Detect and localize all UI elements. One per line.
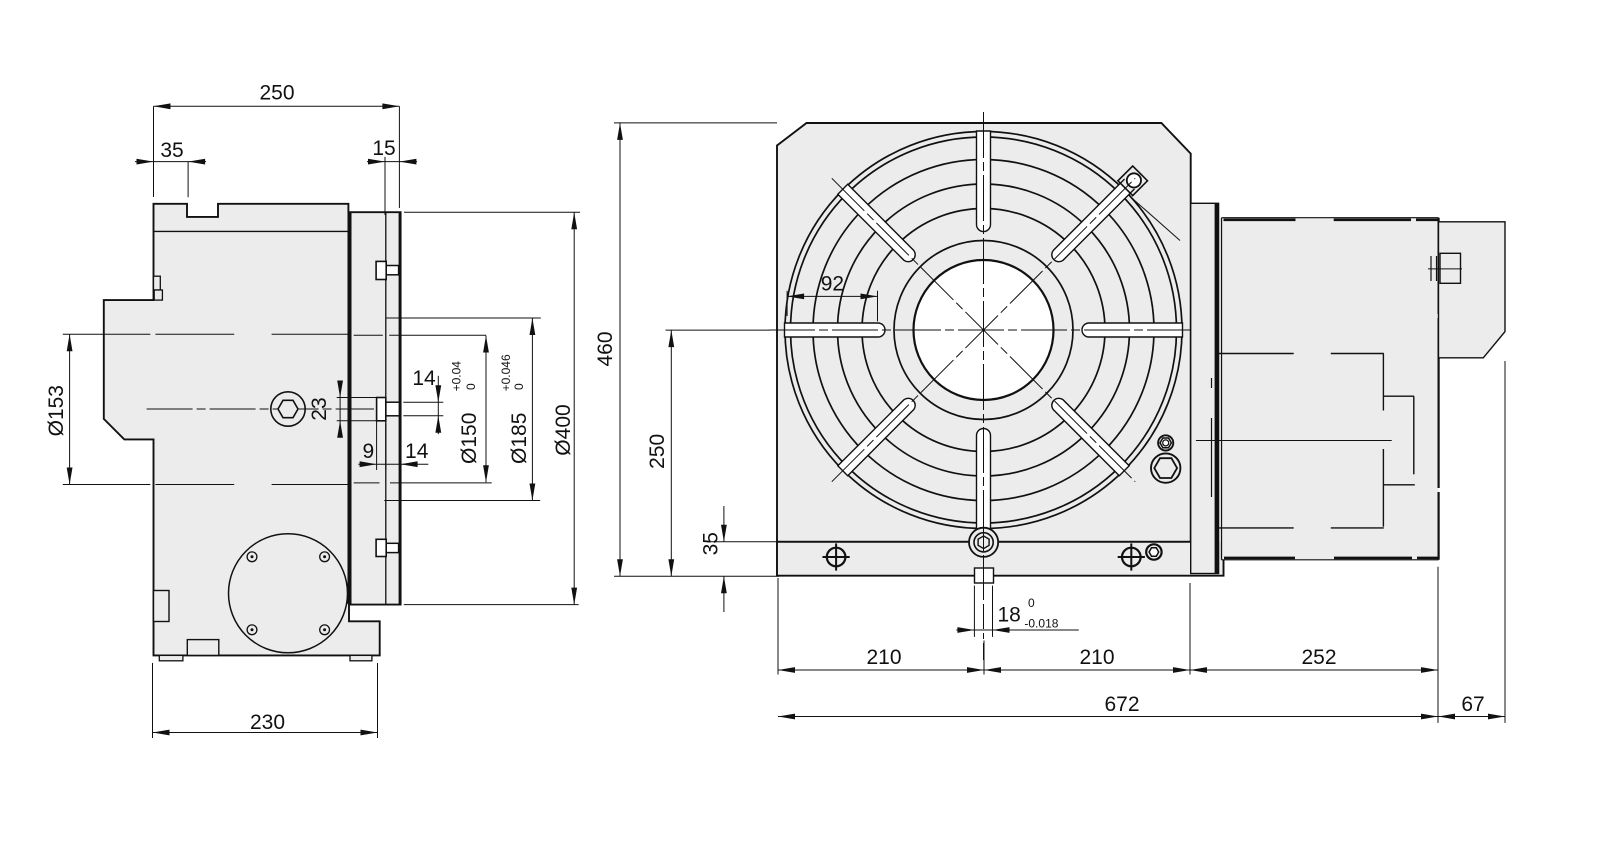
left view: hex socket plug circle (271, 392, 305, 426)
left view: T-slot section opening (386, 402, 401, 416)
left view: T-slot section head (377, 398, 386, 421)
left view: worm shaft centerline (147, 408, 374, 410)
svg-text:+0.046: +0.046 (499, 354, 513, 391)
dim D153 extension lines (63, 333, 151, 335)
front view: motor housing right edge (1437, 218, 1439, 314)
dim 18 line and arrows (956, 629, 1079, 631)
front view: clamp pad square on top-right slot (1118, 166, 1148, 196)
svg-text:+0.04: +0.04 (450, 361, 464, 392)
front view: diagonal centerline NE-SW (832, 178, 1135, 481)
dim D153 extension through body top (155, 333, 234, 335)
left view: bottom keyway notch (187, 640, 219, 656)
svg-text:14: 14 (412, 367, 436, 390)
front view: concentric ring r193 (791, 137, 1177, 523)
svg-text:252: 252 (1301, 646, 1336, 669)
front view: bottom center pilot bolt circles (969, 528, 998, 557)
dim 23 line and arrows (339, 382, 341, 436)
dim D150 line (485, 336, 487, 483)
front view: motor housing left edge (1221, 218, 1223, 560)
front view: T-slot left (785, 323, 886, 337)
dim D400 extension lines (404, 211, 580, 213)
svg-text:0: 0 (1028, 596, 1035, 610)
front view: T-slot top (977, 131, 991, 232)
dim 35 line and arrows (135, 161, 206, 163)
front view: concentric ring r89 (894, 241, 1073, 420)
front view: rim band hidden slot line (1211, 378, 1213, 388)
dim 230 extension lines (152, 663, 154, 738)
dim 250 line (154, 105, 400, 107)
front view: clamp pad slot edge lines inside pad (1130, 189, 1135, 194)
front view: clamp pad bolt circle (1127, 173, 1141, 187)
dim 250 extension lines (153, 106, 155, 197)
svg-text:0: 0 (512, 383, 526, 390)
front view: base cross-hole left (827, 548, 846, 567)
svg-text:Ø150: Ø150 (458, 413, 481, 464)
left view: small step above spindle nose (154, 290, 162, 300)
front view: clamp pad cross centerline (1130, 196, 1180, 240)
front view: large hex plug lower (1151, 453, 1180, 482)
front view: faceplate body with chamfered corners (777, 123, 1191, 542)
left view: cover screw bottom-left (247, 625, 257, 635)
dim D185 line (531, 318, 533, 501)
front view: worm shaft axis line (1196, 440, 1392, 442)
left view: hex socket (278, 400, 298, 417)
dim 92 extension lines (786, 291, 788, 316)
dim 92 line (787, 295, 877, 297)
svg-text:92: 92 (821, 273, 844, 296)
left view: small notch on left edge (154, 276, 161, 290)
dim D150 extension lines (354, 334, 383, 336)
front view: hidden worm housing right edge (1382, 354, 1384, 411)
svg-text:23: 23 (308, 397, 331, 420)
dim 35 front line and arrows (723, 506, 725, 542)
dim D153 line (69, 334, 71, 484)
front view: concentric ring r121 (862, 209, 1105, 452)
front view: T-slot top-left (838, 184, 915, 261)
dim D153 extension through body bottom (155, 484, 234, 486)
dim 67 line (1438, 716, 1505, 718)
svg-text:250: 250 (646, 434, 669, 469)
left view: lower clamp bolt head (376, 539, 386, 556)
svg-text:210: 210 (866, 646, 901, 669)
front view: concentric ring r170 (813, 160, 1154, 501)
left view: cover screw top-left (247, 552, 257, 562)
svg-text:230: 230 (250, 711, 285, 734)
front view: base strip (777, 542, 1224, 576)
left view: cover screw top-right (320, 552, 330, 562)
dim 35 extension line (187, 162, 189, 198)
svg-text:Ø400: Ø400 (552, 404, 575, 455)
dim chain line (778, 669, 1438, 671)
svg-text:0: 0 (464, 383, 478, 390)
dim 18 extension lines (973, 586, 975, 637)
left view: right foot (350, 655, 372, 660)
left view: cover screw bottom-right (320, 625, 330, 635)
dim 14 slot-width extension lines (403, 401, 443, 403)
svg-text:672: 672 (1104, 693, 1139, 716)
left view: gearbox housing silhouette (104, 204, 401, 656)
dim 250 front extension line (666, 329, 771, 331)
svg-text:35: 35 (160, 139, 183, 162)
svg-text:18: 18 (998, 603, 1021, 626)
svg-text:210: 210 (1079, 646, 1114, 669)
dim 460 extension lines (614, 122, 777, 124)
dim 9 and 14 extension lines (376, 422, 378, 471)
front view: rear gear block (1439, 222, 1506, 358)
dim 672 line (778, 716, 1438, 718)
svg-text:460: 460 (594, 331, 617, 366)
dim 23 extension stubs (337, 397, 377, 399)
dim 9 and 14 line and arrows (358, 463, 428, 465)
front view: hidden worm housing outline bottom (1219, 527, 1294, 529)
svg-text:-0.018: -0.018 (1024, 617, 1058, 631)
front view: locating key block (975, 568, 994, 583)
dim D150 label (450, 361, 482, 464)
left view: faceplate front face thick edge (399, 212, 401, 604)
front view: horizontal centerline (769, 329, 1203, 331)
dim D185 label (499, 354, 531, 464)
front view: T-slot top-right with clamp pad (1052, 181, 1133, 262)
front view: rear block bolt head (1440, 253, 1461, 283)
front view: faceplate outer circle r198 (785, 132, 1182, 529)
front view: motor housing bottom edge thick dashes (1224, 557, 1295, 560)
dim 18 centerline below key (983, 526, 985, 660)
left view: lower-left clamp pad (154, 591, 170, 622)
front view: motor housing top edge thin (1222, 217, 1439, 219)
front view: table rim band side (1191, 203, 1219, 573)
front view: center bore circle (914, 260, 1054, 400)
dim chain extension lines 210-210-252 (777, 578, 779, 675)
svg-text:35: 35 (700, 532, 723, 555)
front view: motor housing top edge thick dashes (1224, 219, 1296, 222)
front view: T-slot bottom (977, 429, 991, 530)
front view: rear block bolt axis line (1428, 268, 1462, 270)
front view: hidden worm housing outline top (1219, 353, 1294, 355)
left view: left foot (159, 655, 183, 660)
front view: motor housing body (1222, 218, 1439, 560)
dim 230 line (153, 732, 378, 734)
dim 14 slot-width line and arrows (437, 376, 439, 434)
dim 15 extension line (384, 157, 386, 215)
dim 250 front line (670, 330, 672, 576)
front view: concentric ring r146 (838, 184, 1130, 476)
svg-text:Ø185: Ø185 (508, 413, 531, 464)
front view: T-slot bottom-right (1052, 398, 1129, 475)
front view: vertical centerline (983, 112, 985, 600)
front view: T-slot bottom-left (838, 398, 915, 475)
dim D400 line (573, 212, 575, 604)
left view: faceplate rear face line (385, 212, 387, 604)
left view: top cover split line (154, 230, 349, 232)
svg-text:15: 15 (372, 137, 395, 160)
dim 15 line and arrows (367, 161, 417, 163)
svg-text:9: 9 (362, 440, 374, 463)
left view: lower clamp bolt shaft (386, 543, 398, 552)
left view: faceplate mounting face thick edge (348, 212, 352, 604)
front view: T-slot right (1082, 323, 1183, 337)
dim 460 line (619, 123, 621, 576)
svg-text:250: 250 (259, 82, 294, 105)
front view: rear block bolt washer lines (1430, 256, 1432, 281)
dim D185 extension lines (386, 317, 541, 319)
front view: base cross-hole right (1122, 548, 1141, 567)
front view: motor housing bottom edge thin (1222, 559, 1439, 561)
front view: hidden gear bump outline (1383, 395, 1414, 397)
left view: upper clamp bolt shaft (386, 266, 398, 275)
front view: rim band thick edge (1215, 203, 1219, 573)
front view: base hex bolt right (1146, 544, 1161, 559)
dim 35 front extension stub (707, 541, 777, 543)
front view: diagonal centerline NW-SE (832, 178, 1135, 481)
svg-text:14: 14 (405, 440, 429, 463)
left view: rear cover circle (229, 534, 348, 653)
left view: upper clamp bolt head (376, 261, 386, 279)
svg-text:67: 67 (1461, 693, 1484, 716)
svg-text:Ø153: Ø153 (45, 385, 68, 436)
front view: small hex plug upper (1158, 435, 1173, 450)
